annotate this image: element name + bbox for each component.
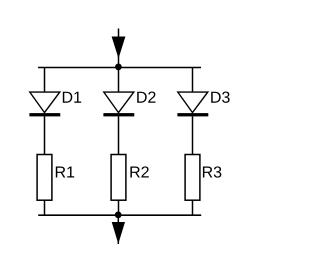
node: top junction dot [115,64,122,71]
node: bottom junction dot [115,212,122,219]
wire: top rail to D1 anode [44,68,46,93]
diode D1 [29,92,60,116]
current arrow (input, top) [112,29,125,68]
label D3 [211,92,229,103]
label D1 [63,92,81,103]
label D2 [137,92,155,103]
wire: R3 to bottom rail [192,200,194,215]
wire: top rail to D3 anode [192,68,194,93]
resistor R2 [111,155,126,201]
wire: D2 cathode to R2 [118,116,120,154]
resistor R3 [185,155,200,201]
diode D2 [103,92,134,116]
wire: D3 cathode to R3 [192,116,194,154]
wire: top rail to D2 anode [118,68,120,93]
diode D3 [177,92,208,116]
wire: bottom return rail [38,214,201,216]
label R3 [203,166,221,177]
wire: top supply rail [38,67,201,69]
wire: D1 cathode to R1 [44,116,46,154]
wire: R2 to bottom rail [118,200,120,215]
current arrow (output, bottom) [112,215,125,244]
label R2 [130,166,148,177]
wire: R1 to bottom rail [44,200,46,215]
resistor R1 [37,155,52,201]
label R1 [56,166,74,177]
